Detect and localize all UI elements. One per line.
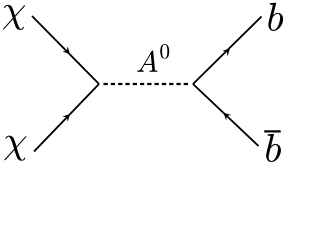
arrow on bottom-right b-bar line bbox=[224, 113, 232, 121]
node: label chi (top-left) bbox=[3, 5, 25, 30]
node: label b-bar letter b (bottom-right) bbox=[266, 134, 281, 162]
arrow on top-left chi line bbox=[62, 46, 70, 54]
wire: incoming chi fermion line (top-left) bbox=[32, 16, 99, 84]
arrow on bottom-left chi line bbox=[62, 114, 70, 122]
node: label b (top-right) bbox=[268, 3, 283, 31]
overline bar of b-bar bbox=[264, 130, 281, 132]
node: superscript 0 of A0 bbox=[160, 44, 169, 59]
wire: dashed A0 scalar propagator bbox=[104, 83, 189, 85]
arrow on top-right b line bbox=[222, 49, 230, 57]
node: label A of A0 propagator bbox=[137, 50, 157, 71]
wire: outgoing b-bar quark line (bottom-right) bbox=[193, 84, 259, 146]
wire: incoming chi fermion line (bottom-left) bbox=[34, 84, 99, 152]
node: label chi (bottom-left) bbox=[4, 136, 26, 161]
wire: outgoing b quark line (top-right) bbox=[193, 17, 262, 85]
